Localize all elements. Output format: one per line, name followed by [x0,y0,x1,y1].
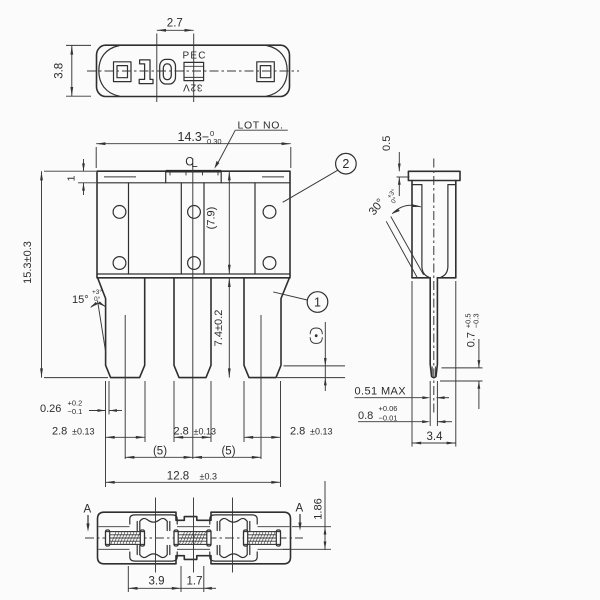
hole circle top-right [263,206,276,219]
element window inner line bottom [184,76,204,78]
svg-text:0.8: 0.8 [358,410,373,422]
svg-text:2.8: 2.8 [174,426,189,438]
body right edge [455,181,457,278]
dimension 0.7 tip [442,367,483,369]
svg-text:2.8: 2.8 [290,426,305,438]
dimension 0.5 [397,176,410,178]
right blade centerline [260,315,262,459]
svg-text:−0.01: −0.01 [379,414,398,423]
dimension 0.26 [108,381,110,415]
cavity 2 inner profile [210,515,257,561]
svg-text:7.4±0.2: 7.4±0.2 [213,310,225,347]
svg-text:±0.13: ±0.13 [194,427,216,437]
svg-text:(7.9): (7.9) [206,207,218,230]
dimension 7.4±0.2 [228,278,230,378]
right blade [244,278,289,378]
svg-text:3.9: 3.9 [149,576,165,588]
svg-text:1: 1 [314,296,321,310]
svg-text:2: 2 [342,157,349,171]
svg-text:1: 1 [66,175,78,181]
hole circle top-left [113,206,126,219]
section outer outline [98,512,291,564]
element window square [184,62,204,80]
rating digit 0 inner [163,64,171,80]
dimension 1.86 [292,526,331,528]
element window inner line top [184,65,204,67]
section vertical centerlines [155,498,157,573]
svg-text:0.51 MAX: 0.51 MAX [355,386,407,398]
svg-text:+3°: +3° [92,288,102,296]
svg-text:A: A [296,503,304,515]
centerline CL vertical [192,166,194,459]
dimension (7.9) [228,171,230,274]
rating digit 0 outer [160,59,176,84]
svg-text:1.86: 1.86 [313,498,325,519]
svg-text:0.5: 0.5 [381,136,393,151]
balloon 1 [307,292,328,313]
dimension 12.8±0.3 [106,481,281,483]
blade bar right [244,530,281,546]
dimension 15.3±0.3 [44,170,78,172]
dimension 3.9 [128,587,204,589]
30 degree construction line b [386,221,417,278]
channel wall lines [99,526,130,528]
dimension 2.8±0.13 middle [174,436,211,438]
svg-text:14.3−: 14.3− [178,130,210,144]
hole circle bottom-middle [188,257,201,270]
svg-text:−0.1: −0.1 [68,407,83,416]
hole circle bottom-left [113,257,126,270]
svg-text:(5): (5) [153,446,167,458]
cavity 1 inner profile [130,515,177,561]
dimension 14.3 top [95,147,97,168]
svg-text:0.26: 0.26 [40,403,61,415]
hole circle bottom-right [263,257,276,270]
hidden edge right in band [262,176,284,178]
svg-text:+0.06: +0.06 [379,404,398,413]
blade edge extension lines [105,381,107,487]
dimension 2.7 [157,29,194,31]
extension line right of 2.7 [193,34,195,103]
blade bar middle [174,530,211,546]
blade thickness extension lines [429,381,431,426]
housing outer rectangle [97,171,290,278]
right end inner arc [267,46,288,97]
(.) reference symbol [310,328,322,334]
inner slot step left [412,185,429,278]
svg-text:3.4: 3.4 [427,431,444,443]
svg-text:A: A [84,504,92,516]
left blade centerline [124,315,126,459]
svg-text:0.30: 0.30 [207,137,222,146]
rating digit 1 [139,60,153,84]
horizontal centerline [87,70,299,72]
middle blade [174,278,211,378]
svg-text:L: L [191,158,198,170]
blade tip facet lines [431,367,433,377]
dimension (5) right [193,456,261,458]
svg-text:(5): (5) [221,446,235,458]
vertical centerline [433,159,435,415]
svg-text:2.7: 2.7 [167,17,183,29]
body left edge [411,181,413,278]
dimension 2.8±0.13 right [244,436,281,438]
dimension 3.4 [411,281,413,447]
svg-text:32V: 32V [182,82,202,93]
horizontal centerline [85,537,303,539]
hidden edge left in band [104,176,136,178]
svg-text:2.8: 2.8 [52,426,67,438]
tip chamfer reference dimension [284,365,346,367]
lot number pad [165,171,167,183]
svg-text:±0.13: ±0.13 [310,427,332,437]
svg-text:12.8: 12.8 [167,471,189,483]
svg-text:−0.3: −0.3 [472,313,481,328]
fuse body outline (top view) [97,45,290,96]
svg-text:LOT NO.: LOT NO. [238,119,284,131]
dimension (5) left [125,456,193,458]
balloon 2 [336,153,357,174]
lot pad tick marks [169,172,171,175]
svg-text:±0.13: ±0.13 [72,427,94,437]
svg-text:0.7: 0.7 [466,332,478,347]
cap (top flange) [408,171,460,180]
left terminal window inner square [117,66,128,78]
top band line [97,182,290,184]
blade bar left [106,530,145,546]
dimension 2.8±0.13 left [106,436,146,438]
svg-text:15.3±0.3: 15.3±0.3 [22,241,34,284]
dimension 1 (top band) [78,170,96,172]
left blade [98,278,145,378]
column edge lines [128,183,130,274]
svg-text:PEC: PEC [183,51,207,62]
right terminal window outer square [257,62,275,82]
skirt line [97,273,290,275]
extension line left of 2.7 [156,34,158,103]
svg-text:1.7: 1.7 [187,576,203,588]
inner slot step right [441,185,456,278]
left terminal window outer square [114,62,132,82]
30 degree construction line a [391,217,424,275]
svg-text:±0.3: ±0.3 [200,472,217,482]
30 degree arc [392,205,421,214]
svg-text:15°: 15° [72,294,89,306]
body bottom edge [412,277,430,279]
hole circle top-middle [188,206,201,219]
right terminal window inner square [260,66,271,78]
blade side profile [430,278,437,378]
svg-text:3.8: 3.8 [54,63,66,79]
dimension 3.8 [66,44,91,46]
left end inner arc [99,46,120,97]
dimension 3.9 / 1.7 extension lines [127,566,129,592]
dimension 1.7 [204,587,216,589]
